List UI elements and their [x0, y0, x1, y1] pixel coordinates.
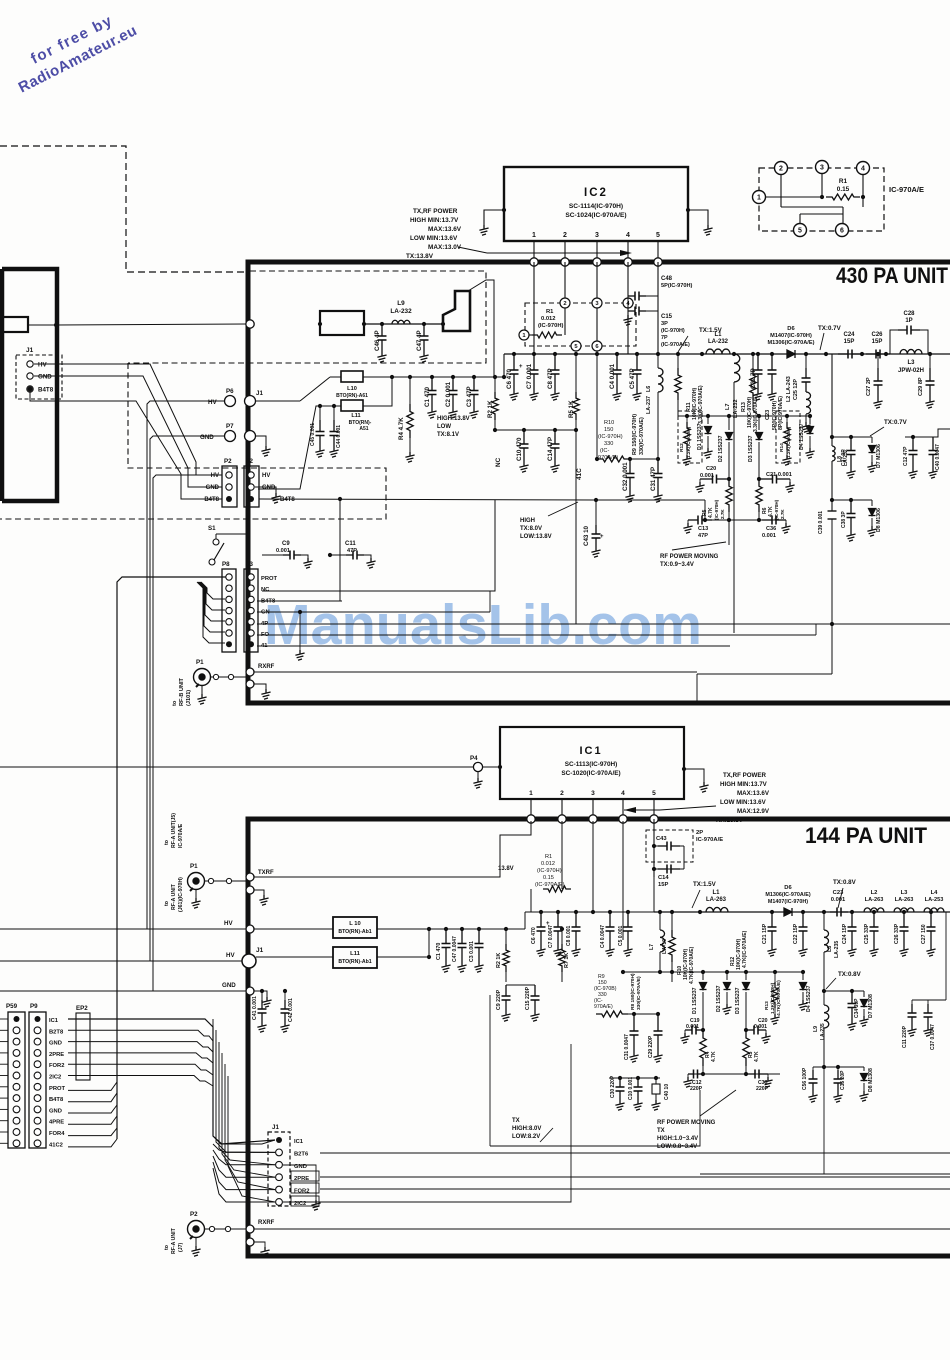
svg-text:L11: L11 — [350, 951, 360, 957]
wires J1 (144) re-fan — [213, 1144, 275, 1202]
svg-text:C29 220P: C29 220P — [648, 1035, 654, 1058]
capacitor C36 0.001 (430) — [762, 516, 791, 540]
pad 3 (jumper diagram) — [816, 161, 829, 174]
IC-970A/E jumper diagram dashed box — [759, 168, 884, 231]
svg-text:D4 1SS237: D4 1SS237 — [799, 423, 805, 450]
pin P4 — [470, 755, 483, 788]
capacitor C4 0.0047 (144) — [600, 912, 615, 956]
capacitor C9 220P (144) — [496, 982, 511, 1021]
resistor R1 0.012/0.15 (144) — [531, 821, 571, 892]
svg-text:P7: P7 — [226, 423, 234, 430]
connector J1 (left unit) — [16, 347, 62, 399]
svg-text:+: + — [600, 534, 604, 540]
inductor L3 JPW-02H — [898, 349, 924, 374]
svg-text:(J7): (J7) — [178, 1243, 184, 1252]
svg-text:C45 0.001: C45 0.001 — [310, 423, 316, 446]
svg-text:M1306(IC-970A/E): M1306(IC-970A/E) — [768, 340, 815, 346]
svg-text:L8: L8 — [827, 946, 833, 952]
capacitor C12 47P (430 right) — [903, 429, 950, 478]
svg-text:D3 1SS237: D3 1SS237 — [748, 435, 754, 462]
svg-text:C21 0.001: C21 0.001 — [766, 472, 792, 478]
capacitor C4 0.001 — [609, 354, 622, 400]
svg-text:L2 LA-243: L2 LA-243 — [786, 376, 792, 402]
svg-text:D1 1SS237: D1 1SS237 — [692, 987, 698, 1014]
svg-text:HV: HV — [262, 473, 270, 479]
capacitor C6 470 (144) — [531, 912, 550, 956]
svg-text:R2 1K: R2 1K — [487, 400, 494, 418]
wire J1 B4T8 to P2 — [30, 392, 222, 499]
capacitor C5 0.001 (144) — [618, 912, 633, 956]
capacitor C41 0.001 (144) — [252, 989, 267, 1032]
pad 4 (jumper diagram) — [857, 162, 870, 175]
svg-text:RF-B UNIT: RF-B UNIT — [179, 677, 185, 706]
svg-text:L4: L4 — [931, 890, 939, 896]
wire 41C vertical run — [575, 430, 577, 624]
resistor R11 10K/3.3K — [675, 354, 704, 424]
pad 3 (430 R1 block) — [592, 298, 602, 308]
wire HV rail 1 (144) — [0, 920, 246, 929]
svg-text:TX: TX — [657, 1128, 665, 1134]
svg-text:C7 0.001: C7 0.001 — [526, 363, 533, 389]
capacitor C15 220P (144) — [506, 985, 540, 1021]
capacitor C47 4P — [416, 324, 429, 362]
svg-text:C28: C28 — [903, 311, 915, 317]
wire P4 line — [0, 766, 473, 768]
svg-text:D8 M1306: D8 M1306 — [876, 508, 882, 532]
svg-text:BTO(RN)-A61: BTO(RN)-A61 — [336, 393, 368, 399]
svg-text:220P: 220P — [690, 1086, 703, 1092]
svg-text:to: to — [164, 901, 170, 906]
RF-B unit block border fragment — [2, 269, 57, 501]
inductor L6 LA-237 (430) — [646, 368, 663, 414]
svg-text:L11: L11 — [351, 413, 360, 419]
pin HV on 144 border — [246, 925, 254, 933]
svg-text:C9 220P: C9 220P — [496, 989, 502, 1010]
pin 5 on 144 border — [650, 815, 658, 823]
svg-text:SC-1114(IC-970H): SC-1114(IC-970H) — [569, 203, 623, 210]
svg-text:C42 0.001: C42 0.001 — [288, 998, 294, 1022]
2P IC-970A/E dashed box with C43/C14 — [646, 819, 723, 912]
capacitor C45 0.001 (430) — [310, 404, 325, 457]
svg-text:2.7K: 2.7K — [780, 509, 785, 519]
svg-text:TX:0.8V: TX:0.8V — [833, 879, 857, 886]
wire bias row bottom (144) — [688, 1066, 780, 1076]
svg-text:3.3K(IC-970A/E): 3.3K(IC-970A/E) — [698, 385, 704, 424]
note TX:0.7V (430 rail) — [818, 325, 842, 350]
svg-text:J1: J1 — [256, 947, 264, 954]
svg-text:LA-232: LA-232 — [708, 339, 729, 345]
wire bundle into J1 (144) — [213, 1019, 275, 1205]
wire mid rail 430 — [493, 428, 578, 432]
svg-text:5: 5 — [798, 228, 802, 235]
pin 3 on 430 border — [593, 258, 601, 266]
svg-text:TX:0.7V: TX:0.7V — [818, 325, 842, 332]
diode D2 1SS237 (430) — [718, 416, 733, 479]
svg-text:C20: C20 — [706, 466, 716, 472]
svg-text:C15 220P: C15 220P — [525, 986, 531, 1010]
capacitor C11 220P (144 right) — [902, 1000, 917, 1048]
diode D3 1SS237 (430) — [748, 416, 763, 479]
IC1 right pin wire and ground — [682, 767, 709, 792]
pin 1 on 144 border — [527, 815, 535, 823]
capacitor C48 5P(IC-970H) — [628, 262, 693, 354]
svg-text:C43: C43 — [656, 836, 667, 842]
connector P8 — [222, 561, 236, 652]
resistor R6 4.7K/2.7K (430) — [756, 479, 785, 520]
svg-text:JPW-02H: JPW-02H — [898, 368, 924, 374]
svg-text:4.7K: 4.7K — [754, 1051, 760, 1062]
pin 1 on 430 border — [530, 258, 538, 266]
IC2 pin 5 lead — [657, 241, 659, 258]
svg-text:NC: NC — [261, 587, 270, 593]
dashed boundary line top-left — [0, 146, 248, 272]
svg-text:C15: C15 — [661, 314, 673, 320]
note RF POWER MOVING (430) — [660, 554, 719, 568]
wire P7 feed — [150, 436, 225, 961]
svg-text:D6: D6 — [784, 885, 792, 891]
capacitor C47 0.0047 (144) — [452, 929, 467, 972]
svg-text:LA-237: LA-237 — [646, 396, 652, 414]
wire RXRF line (144) — [254, 1229, 950, 1257]
svg-text:C13: C13 — [698, 526, 708, 532]
note TX:0.8V (144 D7) — [826, 971, 862, 989]
inductor L3 LA-263 (144) — [894, 890, 914, 912]
svg-text:3.3K(IC-970A/E): 3.3K(IC-970A/E) — [753, 394, 759, 432]
IC2 left supply pin wire and ground — [479, 208, 506, 235]
svg-text:IC-970A/E: IC-970A/E — [696, 837, 723, 843]
capacitor C22 7P — [750, 354, 763, 400]
svg-text:0.001: 0.001 — [700, 473, 714, 479]
svg-text:3: 3 — [591, 790, 595, 797]
svg-text:1: 1 — [529, 790, 533, 797]
svg-text:D2 1SS237: D2 1SS237 — [716, 985, 722, 1012]
diode D1 1SS237 (144) — [692, 972, 707, 1030]
svg-text:TXRF: TXRF — [258, 870, 274, 876]
IC1 block SC-1113/SC-1020 — [500, 727, 684, 799]
144 PA UNIT block border — [248, 819, 950, 1256]
pad 4 (430 R1 block) — [623, 298, 633, 308]
capacitor C3 47P — [466, 377, 479, 418]
note TX:0.8V (144 rail) — [833, 879, 857, 908]
wire 144 RF rail — [654, 910, 950, 914]
svg-text:4: 4 — [861, 166, 865, 173]
resistor network R10/R9 — [595, 354, 660, 462]
dashed H-only boundary inside 430 unit — [0, 271, 486, 519]
svg-text:B4T8: B4T8 — [38, 387, 54, 394]
capacitor C25 33P (144) — [864, 912, 879, 956]
svg-text:970A/E): 970A/E) — [594, 1004, 613, 1010]
svg-text:330: 330 — [604, 441, 613, 447]
svg-text:M1306(IC-970A/E): M1306(IC-970A/E) — [765, 892, 810, 898]
resistor R13 1.2K/4.7K (144) — [764, 972, 782, 1024]
svg-text:C47 4P: C47 4P — [416, 330, 423, 351]
svg-text:2: 2 — [563, 301, 566, 307]
svg-text:C1 470: C1 470 — [436, 943, 442, 960]
resistor R5' 4.7K/2.7K (430) — [702, 479, 732, 520]
svg-text:IC-970A/E: IC-970A/E — [178, 823, 184, 848]
capacitor C27 2P — [866, 352, 883, 408]
wire HIGH control line — [259, 497, 707, 601]
pad 2 (430 R1 block) — [560, 298, 570, 308]
capacitor C19 0.001 (144) — [680, 1018, 705, 1043]
svg-text:1.2K(IC-970H): 1.2K(IC-970H) — [770, 982, 776, 1014]
svg-text:C37 9P: C37 9P — [841, 449, 847, 466]
svg-text:FOR4: FOR4 — [49, 1131, 65, 1137]
svg-text:C23: C23 — [765, 410, 771, 420]
svg-text:D1 1SS237: D1 1SS237 — [697, 423, 703, 450]
IC2 block SC-1114/SC-1024 — [504, 167, 688, 241]
capacitor C56 100P (144) — [802, 1067, 818, 1102]
svg-text:HIGH:13.8V: HIGH:13.8V — [437, 416, 470, 422]
pin GND on 144 border — [246, 987, 272, 1007]
svg-text:(J101): (J101) — [186, 690, 192, 706]
IC1 pin 2 lead — [561, 799, 563, 815]
svg-text:J3: J3 — [246, 561, 253, 568]
wire J2 HV — [255, 401, 300, 475]
svg-text:R1: R1 — [545, 854, 552, 860]
svg-text:13.8V: 13.8V — [498, 866, 514, 872]
resistor R12 10K/4.7K (144) — [730, 930, 748, 970]
svg-text:TX,RF POWER: TX,RF POWER — [413, 208, 458, 215]
svg-text:C40 0.0047: C40 0.0047 — [935, 444, 941, 470]
capacitor C46 4P — [374, 324, 387, 362]
svg-text:J2: J2 — [246, 458, 253, 465]
resistor R4 4.7K (144) — [700, 1030, 717, 1066]
diode D6 M1407/M1306 (430) — [768, 326, 815, 358]
svg-text:C32 0.001: C32 0.001 — [622, 462, 629, 491]
connector P59 — [6, 1003, 25, 1148]
wire 144 lower horizontal — [700, 1067, 950, 1174]
svg-text:LA-263: LA-263 — [865, 897, 884, 903]
svg-text:LA-232: LA-232 — [733, 399, 739, 418]
note HIGH:13.8V LOW TX:8.1V — [437, 416, 470, 438]
svg-text:0.001: 0.001 — [831, 897, 846, 903]
capacitor C2 0.001 — [445, 377, 458, 418]
svg-text:TX: TX — [512, 1118, 520, 1124]
cluster C30/C10/C40 (144) — [609, 1075, 670, 1110]
svg-text:C12 47P: C12 47P — [903, 446, 909, 466]
resistor R2 1K — [487, 375, 498, 430]
svg-text:L9: L9 — [397, 300, 405, 307]
IC2 right supply pin wire and ground — [686, 208, 713, 235]
wire output shunt branch (430) — [830, 354, 872, 674]
pin P7 GND — [200, 423, 236, 442]
svg-text:P6: P6 — [226, 388, 234, 395]
svg-text:HIGH MIN:13.7V: HIGH MIN:13.7V — [410, 217, 459, 224]
svg-text:4.7K(IC-970A/E): 4.7K(IC-970A/E) — [742, 930, 748, 968]
inductor L7 LA-232 shunt — [725, 354, 740, 633]
svg-text:FOR2: FOR2 — [49, 1063, 64, 1069]
svg-text:RF POWER MOVING: RF POWER MOVING — [657, 1120, 716, 1126]
svg-text:P2: P2 — [224, 458, 232, 465]
svg-text:2PRE: 2PRE — [49, 1052, 64, 1058]
wire GND rail (144) — [0, 982, 246, 991]
svg-text:5P(IC-970H): 5P(IC-970H) — [661, 283, 693, 289]
capacitor C15 3P/7P — [623, 296, 690, 348]
svg-text:+: + — [519, 364, 523, 370]
boot-shaped strip line — [443, 291, 470, 331]
svg-text:NC: NC — [495, 457, 502, 467]
wire P2 HV feed — [153, 475, 222, 991]
svg-text:L7: L7 — [649, 944, 655, 950]
svg-text:0.15: 0.15 — [543, 875, 554, 881]
resistor R14 1.2K dashed box (430) — [776, 411, 800, 465]
svg-text:LOW:13.8V: LOW:13.8V — [520, 534, 552, 540]
svg-text:TX:8.0V: TX:8.0V — [520, 526, 542, 532]
svg-text:5: 5 — [656, 232, 660, 239]
svg-text:IC1: IC1 — [49, 1018, 59, 1024]
IC1 pin 4 lead — [622, 799, 624, 815]
svg-text:C8 0.001: C8 0.001 — [566, 925, 572, 946]
svg-text:MAX:12.9V: MAX:12.9V — [737, 808, 770, 815]
capacitor C12 220P (144) — [683, 1070, 703, 1093]
jumper block R1 dashed box (430) — [525, 303, 636, 346]
wire GND into unit — [255, 436, 271, 456]
capacitor C22 15P (144) — [793, 912, 808, 956]
wire J1 HV to P2 — [34, 364, 222, 475]
resistor R10 10K/4.7K (144) — [669, 912, 695, 984]
svg-text:R8 150(IC-970H): R8 150(IC-970H) — [630, 973, 636, 1010]
svg-text:IC1: IC1 — [579, 745, 602, 757]
pin 4 on 144 border — [619, 815, 627, 823]
connector P9 — [29, 1003, 46, 1148]
svg-text:to: to — [164, 1245, 170, 1250]
svg-text:R7 1K: R7 1K — [564, 953, 570, 968]
svg-text:15P: 15P — [658, 882, 668, 888]
svg-text:C3 47P: C3 47P — [466, 386, 473, 407]
svg-text:2P: 2P — [696, 830, 703, 836]
capacitor C42 0.001 (144) — [280, 989, 294, 1032]
svg-text:15P: 15P — [844, 339, 855, 345]
svg-text:D3 1SS237: D3 1SS237 — [735, 987, 741, 1014]
capacitor C32 0.001 — [622, 459, 635, 502]
wire P6 feed — [147, 401, 225, 929]
svg-text:P4: P4 — [470, 755, 478, 762]
wire J2 GND ground — [255, 487, 281, 503]
svg-text:LA-232: LA-232 — [390, 308, 412, 315]
svg-text:TX:13.8V: TX:13.8V — [406, 253, 434, 260]
pointer arrow to IC1 pins — [624, 806, 716, 813]
svg-text:LOW MIN:13.6V: LOW MIN:13.6V — [410, 235, 458, 242]
svg-text:LW-19: LW-19 — [662, 939, 668, 954]
IC1 pin 5 lead — [653, 799, 655, 815]
svg-text:PROT: PROT — [49, 1086, 66, 1092]
svg-text:L10: L10 — [347, 386, 357, 392]
svg-text:LA-263: LA-263 — [895, 897, 914, 903]
svg-text:R1: R1 — [546, 309, 554, 315]
wire J1 GND to P2 — [34, 376, 222, 487]
connector J2 — [244, 458, 295, 507]
note TX,RF POWER (144) — [716, 772, 770, 824]
svg-text:R13: R13 — [764, 1001, 770, 1010]
note TX:1.5V (144) — [692, 881, 717, 908]
svg-text:R1: R1 — [839, 178, 848, 185]
wire D7 row (144) — [822, 989, 864, 993]
capacitor C34 39P (144) — [847, 991, 860, 1030]
inductor L8 LA-232 (430) — [832, 446, 849, 466]
capacitor C44 0.001 (430) — [329, 404, 342, 457]
diode D1 1SS237 (430) — [697, 416, 713, 458]
svg-text:0.012: 0.012 — [541, 316, 556, 322]
svg-text:C31 47P: C31 47P — [650, 467, 657, 491]
capacitor C37 0.0047 (144 right) — [923, 1000, 936, 1050]
svg-text:(J61)(IC-970H): (J61)(IC-970H) — [178, 877, 184, 912]
svg-text:D7 M1308: D7 M1308 — [868, 994, 874, 1018]
svg-text:SC-1024(IC-970A/E): SC-1024(IC-970A/E) — [565, 212, 626, 219]
capacitor C6 470 — [506, 354, 523, 400]
svg-text:C1 470: C1 470 — [424, 386, 431, 407]
svg-text:TX:0.9~3.4V: TX:0.9~3.4V — [660, 562, 694, 568]
svg-text:C44 0.001: C44 0.001 — [336, 425, 342, 448]
capacitor C10 470 — [516, 430, 529, 472]
svg-text:C6 470: C6 470 — [531, 927, 537, 944]
inductor L1 LA-263 (144) — [706, 890, 728, 912]
svg-text:P59: P59 — [6, 1003, 18, 1010]
svg-text:0.001: 0.001 — [754, 1024, 767, 1030]
svg-text:C3 0.001: C3 0.001 — [469, 941, 475, 962]
svg-text:to: to — [164, 840, 170, 845]
coax plug P1 TXRF (144) — [164, 813, 274, 912]
svg-text:C14: C14 — [658, 875, 669, 881]
svg-text:4.7K: 4.7K — [711, 1051, 717, 1062]
svg-text:C9: C9 — [282, 541, 290, 547]
svg-text:C10 470: C10 470 — [516, 437, 523, 461]
svg-text:MAX:13.6V: MAX:13.6V — [428, 226, 462, 233]
capacitor C7 0.0047 (144) — [548, 912, 563, 956]
inductor L11 BTO(RN)-Ab1 (144) — [256, 929, 431, 968]
capacitor C40 0.0047 (430 right) — [928, 437, 941, 478]
svg-text:C34 39P: C34 39P — [854, 998, 860, 1018]
svg-text:LA-235: LA-235 — [820, 1023, 826, 1040]
svg-text:3: 3 — [595, 232, 599, 239]
resistor R2 1K (144) — [496, 929, 509, 982]
svg-text:C30 220P: C30 220P — [610, 1075, 616, 1098]
svg-text:C21 15P: C21 15P — [762, 923, 768, 944]
capacitor C21 0.001 (430) — [757, 472, 795, 492]
svg-text:L1: L1 — [714, 332, 722, 338]
svg-text:3P: 3P — [661, 321, 668, 327]
wire diode row 430 — [678, 414, 812, 418]
capacitor C1 470 (430) — [424, 375, 437, 418]
svg-text:3: 3 — [820, 165, 824, 172]
svg-text:C46 4P: C46 4P — [374, 330, 381, 351]
svg-text:HV: HV — [226, 952, 235, 959]
svg-text:1: 1 — [757, 195, 761, 202]
svg-text:P2: P2 — [190, 1211, 198, 1218]
svg-text:SC-1113(IC-970H): SC-1113(IC-970H) — [565, 761, 618, 768]
wire J1HV into unit — [255, 377, 330, 401]
svg-text:7P: 7P — [661, 335, 668, 341]
svg-text:C22 15P: C22 15P — [793, 923, 799, 944]
svg-text:C26 33P: C26 33P — [894, 923, 900, 944]
capacitor C23 5P/8P — [765, 354, 784, 430]
svg-text:5: 5 — [652, 790, 656, 797]
svg-text:C4 0.0047: C4 0.0047 — [600, 925, 606, 948]
wire 430 RF rail — [660, 352, 950, 356]
svg-text:GND: GND — [38, 374, 52, 381]
capacitor C26 15P — [866, 332, 890, 359]
svg-text:C38 3P: C38 3P — [841, 511, 847, 528]
svg-text:4.7K(IC-970A/E): 4.7K(IC-970A/E) — [689, 946, 695, 984]
IC2 pin 1 lead — [533, 241, 535, 258]
pin on 430 border (GND) — [245, 431, 256, 442]
svg-text:D8 M1308: D8 M1308 — [868, 1068, 874, 1092]
svg-text:41C2: 41C2 — [49, 1142, 63, 1148]
svg-text:L3: L3 — [901, 890, 909, 896]
capacitor C5 47P — [629, 354, 642, 400]
capacitor C1 470 (144) — [436, 929, 451, 972]
svg-text:GND: GND — [262, 485, 276, 491]
